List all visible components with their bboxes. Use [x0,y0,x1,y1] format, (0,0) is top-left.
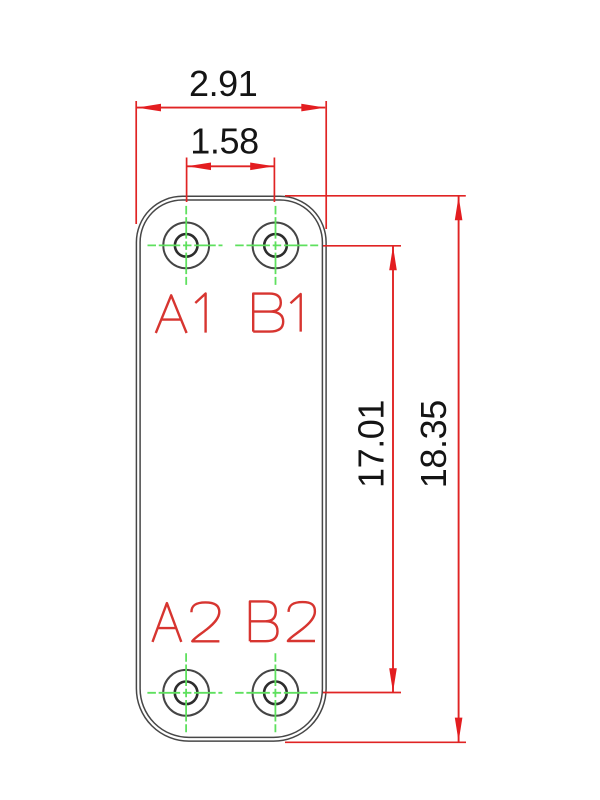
arrowhead 2.91 left [137,104,161,112]
extension line left of dim 1.58 [186,158,188,203]
arrowhead 1.58 left [187,163,211,171]
port A2 inner circle [175,682,198,705]
extension line right of dim 1.58 [273,158,275,203]
port B1 inner circle [264,234,287,257]
arrowhead 2.91 right [301,104,325,112]
center line B2 vertical [274,653,276,732]
dimension line 1.58 [187,165,274,167]
label B1 letter B [253,294,283,332]
extension line left of dim 2.91 [135,101,137,224]
center line A1 horizontal [148,244,223,246]
label A2 digit 2 [191,602,219,641]
center line B1 horizontal [235,244,318,246]
center line B2 horizontal [235,692,318,694]
plate outline inner [140,200,322,737]
center line A2 horizontal [147,692,222,694]
label A2 letter A [153,603,182,642]
svg-text:2.91: 2.91 [189,63,257,104]
dimension line 2.91 [137,107,325,109]
center line A1 vertical [185,206,187,285]
label B2 digit 2 [288,602,315,641]
plate outline outer [136,196,326,741]
svg-text:18.35: 18.35 [413,400,454,488]
dimension line 17.01 [392,246,394,692]
extension line bottom of dim 17.01 [323,692,401,694]
label A1 letter A [156,295,187,333]
extension line bottom of dim 18.35 [285,741,466,743]
center line B1 vertical [275,206,277,285]
port B2 outer circle [253,670,299,716]
port B2 inner circle [264,682,287,705]
port B1 outer circle [253,223,299,269]
dimension line 18.35 [458,196,460,741]
svg-text:17.01: 17.01 [350,400,391,488]
arrowhead 1.58 right [250,163,274,171]
arrowhead 18.35 top [455,196,463,220]
label B1 digit 1 [291,294,301,332]
extension line top of dim 17.01 [323,245,401,247]
svg-text:1.58: 1.58 [190,121,258,162]
center line A2 vertical [185,653,187,732]
extension line top of dim 18.35 [285,195,466,197]
extension line right of dim 2.91 [325,101,327,229]
arrowhead 18.35 bottom [455,718,463,742]
label B2 letter B [250,601,278,641]
label A1 digit 1 [195,294,205,333]
arrowhead 17.01 top [389,246,397,270]
port A2 outer circle [163,670,209,716]
arrowhead 17.01 bottom [389,668,397,692]
port A1 outer circle [163,223,209,269]
port A1 inner circle [175,234,198,257]
